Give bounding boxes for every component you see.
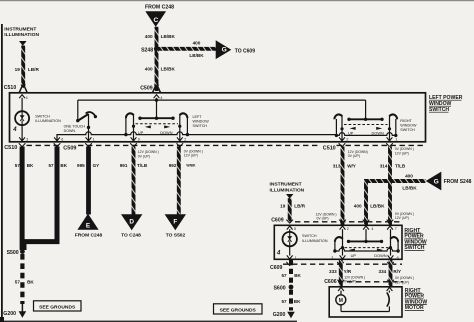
label UP / DOWN (right box switch) bbox=[351, 253, 387, 258]
pin 3 (chevron down) + digit bbox=[331, 255, 345, 259]
svg-text:400: 400 bbox=[193, 41, 201, 46]
left window switch: up-side moving contact and pin 9 drop bbox=[124, 113, 135, 141]
left window switch: linkage dashed bbox=[136, 123, 179, 125]
svg-text:UP: UP bbox=[351, 253, 357, 258]
switch illumination lamp (right box) bbox=[283, 232, 297, 246]
wire label 19 LB/R bbox=[15, 67, 40, 72]
connector dashed line C606 bbox=[338, 281, 403, 283]
label INSTRUMENT ILLUMINATION (top left) bbox=[4, 26, 39, 38]
motor pin chevrons bbox=[338, 287, 392, 291]
left window switch: contact bar bbox=[138, 117, 174, 120]
connector triangle G (to C609) bbox=[216, 40, 232, 59]
svg-text:E: E bbox=[86, 223, 91, 230]
svg-text:SWITCH: SWITCH bbox=[400, 128, 415, 132]
connector triangle C bbox=[145, 11, 166, 27]
voltage note (314 above box) bbox=[395, 212, 414, 220]
pin 4 C510 (chevron up) bbox=[19, 95, 27, 100]
feed arrow (top left) bbox=[19, 41, 27, 46]
label UP / DOWN (left window switch) bbox=[138, 130, 173, 135]
component title RIGHT POWER WINDOW SWITCH bbox=[404, 228, 427, 251]
ground G200 (right) bbox=[273, 312, 295, 318]
connector triangle F (to S502) bbox=[165, 214, 186, 238]
svg-text:UP: UP bbox=[138, 130, 144, 135]
svg-text:C510: C510 bbox=[4, 145, 17, 151]
wire 333 Y/R (pin3 to motor, hatched) bbox=[339, 260, 343, 287]
svg-text:12V (UP): 12V (UP) bbox=[184, 154, 198, 158]
svg-text:INSTRUMENT: INSTRUMENT bbox=[4, 26, 36, 32]
svg-text:4: 4 bbox=[371, 227, 373, 231]
svg-text:4: 4 bbox=[160, 96, 162, 100]
svg-text:LB/BK: LB/BK bbox=[189, 53, 204, 58]
wire labels row below box bbox=[15, 163, 406, 169]
connector triangle D (to C248) bbox=[121, 214, 142, 238]
svg-text:57: 57 bbox=[15, 163, 21, 168]
feed rail 400 inside box bbox=[78, 99, 366, 101]
svg-text:LB/BK: LB/BK bbox=[370, 203, 385, 208]
scan border left bbox=[1, 24, 3, 322]
svg-text:LB/BK: LB/BK bbox=[161, 67, 176, 72]
svg-text:C606: C606 bbox=[324, 279, 337, 285]
voltage note (992) bbox=[184, 149, 203, 157]
svg-text:1: 1 bbox=[93, 138, 95, 142]
svg-text:334: 334 bbox=[379, 269, 387, 274]
wire label 400 LB/BK (upper) bbox=[145, 34, 176, 39]
svg-text:6: 6 bbox=[61, 138, 63, 142]
connector dashed line C609 bottom bbox=[283, 263, 402, 265]
pin 9 C509 (chevron down) bbox=[131, 137, 140, 141]
one touch down switch: left contact riser bbox=[76, 100, 79, 122]
connector socket forks at C606 bbox=[338, 280, 394, 284]
svg-text:C609: C609 bbox=[271, 217, 284, 223]
wire 400 LB/BK (C to S248, hatched) bbox=[155, 27, 159, 91]
svg-text:6: 6 bbox=[397, 256, 399, 260]
wire lamp lead lower bbox=[21, 125, 23, 141]
svg-text:W/Y: W/Y bbox=[347, 163, 356, 168]
svg-text:FROM C248: FROM C248 bbox=[145, 5, 174, 11]
wire label 334 R/Y bbox=[379, 269, 402, 274]
svg-text:2: 2 bbox=[184, 138, 186, 142]
right box switch: rail with hops bbox=[335, 248, 398, 251]
svg-text:BK: BK bbox=[27, 163, 34, 168]
svg-text:WINDOW: WINDOW bbox=[193, 120, 210, 124]
svg-text:12V (UP): 12V (UP) bbox=[395, 280, 409, 284]
svg-text:G200: G200 bbox=[3, 311, 16, 317]
pin 2 C509 (chevron down) bbox=[177, 137, 186, 141]
svg-text:ILLUMINATION: ILLUMINATION bbox=[302, 239, 328, 243]
svg-text:DOWN: DOWN bbox=[374, 253, 387, 258]
svg-text:LB/BK: LB/BK bbox=[402, 186, 417, 191]
wire label 57 BK (lower right) bbox=[281, 299, 301, 304]
svg-text:W/BK: W/BK bbox=[186, 164, 196, 168]
motor brush arc bbox=[387, 292, 389, 306]
motor M1 circle bbox=[336, 291, 346, 312]
svg-text:UP: UP bbox=[348, 131, 354, 136]
svg-text:7: 7 bbox=[395, 227, 397, 231]
right power window motor box outline bbox=[329, 287, 402, 317]
svg-text:4: 4 bbox=[12, 127, 17, 133]
svg-text:3: 3 bbox=[331, 256, 333, 260]
wire 991 T/LB (pin9 down to D, hatched) bbox=[132, 147, 136, 216]
svg-text:57: 57 bbox=[281, 273, 287, 278]
svg-text:0V (UP): 0V (UP) bbox=[138, 154, 150, 158]
svg-text:DOWN.: DOWN. bbox=[64, 129, 76, 133]
motor internal wire right riser bbox=[388, 306, 390, 311]
svg-text:LEFT: LEFT bbox=[193, 115, 203, 119]
voltage note (313 above box) bbox=[316, 212, 337, 220]
svg-text:1: 1 bbox=[295, 256, 297, 260]
pin 6 C509 (chevron down) bbox=[54, 137, 63, 141]
svg-text:400: 400 bbox=[354, 203, 362, 208]
svg-text:C509: C509 bbox=[140, 86, 153, 92]
lamp leads (right box) bbox=[289, 229, 291, 255]
feed arrow (right illumination) bbox=[286, 194, 293, 199]
wire 992 W/BK (pin2 down to F, hatched) bbox=[177, 147, 181, 216]
svg-text:BK: BK bbox=[27, 280, 34, 285]
left window switch: down-side moving contact and pin 2 drop bbox=[178, 113, 189, 141]
svg-text:57: 57 bbox=[15, 280, 21, 285]
right box switch: down-side contact, pin7-pin6 wire bbox=[389, 229, 400, 255]
note box SEE GROUNDS (left) bbox=[34, 301, 82, 311]
wire 400 LB/BK (from G to right switch pin 4, hatched) bbox=[366, 181, 426, 225]
wire lamp lead upper bbox=[21, 98, 23, 111]
pin 7 (chevron up) + digit bbox=[387, 226, 397, 231]
wire 400 LB/BK (S248 to G, horizontal hatched) bbox=[157, 47, 216, 51]
pin 4 (chevron up) + digit bbox=[363, 226, 373, 231]
label RIGHT WINDOW SWITCH bbox=[400, 119, 417, 132]
connector dashed line below box (C510/C509) bbox=[27, 144, 426, 146]
right box switch: motion arrows bbox=[349, 249, 355, 252]
label SWITCH ILLUMINATION (left lamp) bbox=[35, 115, 61, 124]
svg-text:BK: BK bbox=[60, 163, 67, 168]
connector socket forks at C609 bottom bbox=[286, 262, 393, 266]
wire label 19 LB/R (right) bbox=[280, 204, 306, 209]
svg-text:BK: BK bbox=[294, 299, 301, 304]
right window switch: motion arrows bbox=[350, 127, 356, 130]
svg-text:400: 400 bbox=[405, 173, 413, 178]
svg-text:TO S502: TO S502 bbox=[166, 232, 186, 238]
svg-text:ILLUMINATION: ILLUMINATION bbox=[4, 32, 39, 38]
wire label 57 BK (upper right) bbox=[281, 273, 301, 278]
svg-text:57: 57 bbox=[48, 163, 54, 168]
connector C509 (top) bbox=[140, 85, 160, 93]
svg-text:SEE GROUNDS: SEE GROUNDS bbox=[220, 307, 257, 313]
right window switch: up-side moving contact and pin 2 drop bbox=[334, 114, 343, 141]
wire label 400 LB/BK (lower) bbox=[145, 67, 176, 72]
svg-text:TO C609: TO C609 bbox=[235, 49, 255, 55]
svg-text:SWITCH: SWITCH bbox=[302, 234, 317, 238]
svg-text:400: 400 bbox=[145, 34, 153, 39]
wire 313 W/Y (down to right switch, hatched) bbox=[341, 147, 345, 226]
svg-text:995: 995 bbox=[77, 163, 85, 168]
splice S248 bbox=[141, 46, 159, 53]
voltage note (314) bbox=[395, 147, 414, 155]
svg-text:G: G bbox=[222, 47, 227, 54]
svg-text:333: 333 bbox=[329, 269, 337, 274]
label SWITCH ILLUMINATION (right lamp) bbox=[302, 234, 328, 243]
svg-text:C510: C510 bbox=[323, 146, 336, 152]
voltage note (991) bbox=[138, 150, 159, 158]
svg-text:313: 313 bbox=[333, 163, 341, 168]
svg-text:0V (UP): 0V (UP) bbox=[348, 154, 360, 158]
right window switch: contact bar bbox=[347, 118, 383, 121]
svg-text:2: 2 bbox=[347, 227, 349, 231]
svg-text:991: 991 bbox=[120, 163, 128, 168]
wire 995 GY (pin1 down to E, solid) bbox=[86, 147, 91, 215]
svg-text:19: 19 bbox=[280, 204, 286, 209]
right window switch: down-side moving contact and pin 1 drop bbox=[388, 114, 398, 141]
svg-text:SEE GROUNDS: SEE GROUNDS bbox=[39, 304, 76, 310]
svg-text:992: 992 bbox=[169, 163, 177, 168]
scan border top bbox=[0, 0, 474, 1]
svg-text:LB/BK: LB/BK bbox=[161, 34, 176, 39]
svg-text:T/LB: T/LB bbox=[395, 163, 406, 168]
svg-text:FROM C248: FROM C248 bbox=[75, 232, 103, 238]
ground G200 (left) bbox=[3, 304, 26, 318]
svg-text:C509: C509 bbox=[63, 145, 76, 151]
svg-text:C609: C609 bbox=[270, 265, 283, 271]
svg-text:Y/R: Y/R bbox=[344, 269, 352, 274]
label INSTRUMENT ILLUMINATION (right) bbox=[270, 181, 305, 193]
svg-text:INSTRUMENT: INSTRUMENT bbox=[270, 181, 302, 187]
right window switch: linkage dashed bbox=[344, 124, 388, 126]
svg-text:S500: S500 bbox=[7, 250, 19, 256]
right power window switch box U2 outline bbox=[274, 225, 402, 259]
wire 19 LB/R (top left, hatched) bbox=[21, 46, 25, 86]
connector socket forks below box bbox=[19, 143, 393, 147]
connector triangle G (from S248) bbox=[426, 172, 442, 191]
pin 1 C509 (chevron down) bbox=[86, 137, 95, 141]
pin 2 (chevron up) + digit bbox=[340, 226, 349, 231]
svg-text:SWITCH: SWITCH bbox=[35, 115, 50, 119]
svg-text:19: 19 bbox=[15, 67, 21, 72]
right window switch: feed drop bbox=[364, 100, 367, 121]
svg-text:2: 2 bbox=[346, 138, 348, 142]
svg-text:BK: BK bbox=[294, 273, 301, 278]
wire 57 BK (pin1 to S600, dashed) bbox=[289, 260, 293, 285]
component title LEFT POWER WINDOW SWITCH bbox=[429, 95, 463, 113]
wire 57 BK (S600 to G200, dashed) bbox=[289, 290, 293, 311]
svg-text:S600: S600 bbox=[273, 286, 285, 292]
pin 1 (chevron down) bbox=[287, 255, 297, 259]
pin 1 C510 (chevron down) bbox=[387, 137, 398, 141]
pin 4 C509 (chevron up) + feed drop bbox=[154, 95, 163, 119]
pin 2 C510 (chevron down) bbox=[339, 137, 348, 141]
voltage note (313) bbox=[348, 150, 368, 158]
scan border bottom bbox=[0, 321, 297, 322]
svg-text:R/Y: R/Y bbox=[393, 269, 401, 274]
one touch down switch: stem to pin 1 bbox=[87, 114, 90, 141]
wire 57 BK (pin6 down then left to S500, solid) bbox=[24, 147, 57, 251]
svg-text:12V (UP): 12V (UP) bbox=[395, 216, 409, 220]
svg-text:SWITCH: SWITCH bbox=[193, 124, 208, 128]
label LEFT WINDOW SWITCH bbox=[193, 115, 210, 128]
left power window switch box U1 outline bbox=[10, 93, 426, 142]
ground rail inside box (with hops) bbox=[57, 132, 396, 142]
label UP / DOWN (right window switch) bbox=[348, 131, 384, 136]
svg-text:4: 4 bbox=[276, 251, 281, 257]
svg-text:TO C248: TO C248 bbox=[121, 232, 141, 238]
right box switch: contact bar bbox=[347, 240, 383, 243]
svg-text:C: C bbox=[154, 17, 159, 24]
svg-text:DOWN: DOWN bbox=[160, 130, 173, 135]
switch illumination lamp (left) bbox=[15, 111, 29, 125]
svg-text:T/LB: T/LB bbox=[137, 163, 148, 168]
svg-text:3: 3 bbox=[26, 138, 28, 142]
svg-text:S248: S248 bbox=[141, 48, 153, 54]
motor pin 2 lead bbox=[388, 291, 390, 293]
wire 19 LB/R (right, hatched) bbox=[288, 198, 292, 221]
wire 57 BK (pin3 down to S500, solid) bbox=[20, 147, 25, 251]
wire label 57 BK (lower left) bbox=[15, 280, 35, 285]
connector socket forks at C609 top bbox=[286, 220, 393, 224]
svg-text:FROM S248: FROM S248 bbox=[444, 179, 472, 185]
connector triangle E (from C248) bbox=[75, 214, 103, 239]
svg-text:ILLUMINATION: ILLUMINATION bbox=[35, 119, 61, 123]
svg-text:D: D bbox=[129, 218, 134, 225]
svg-text:C510: C510 bbox=[4, 85, 17, 91]
pin 6 (chevron down) + digit bbox=[388, 255, 399, 259]
splice S500 bbox=[7, 249, 25, 256]
splice S600 bbox=[273, 285, 293, 292]
svg-text:M: M bbox=[339, 298, 343, 304]
svg-text:G200: G200 bbox=[273, 312, 286, 318]
svg-text:314: 314 bbox=[380, 163, 388, 168]
svg-text:400: 400 bbox=[145, 67, 153, 72]
svg-text:4: 4 bbox=[26, 96, 28, 100]
voltage note (334) bbox=[395, 276, 414, 284]
right box switch: up-side contact, pin2-pin3 wire bbox=[333, 229, 344, 255]
wire label 333 Y/R bbox=[329, 269, 352, 274]
svg-text:GY: GY bbox=[93, 163, 100, 168]
note box SEE GROUNDS (center) bbox=[214, 304, 263, 314]
left window switch: motion arrows bbox=[145, 125, 151, 128]
svg-text:RIGHT: RIGHT bbox=[400, 119, 412, 123]
svg-text:F: F bbox=[173, 218, 177, 225]
svg-text:WINDOW: WINDOW bbox=[400, 123, 417, 127]
pin 5 (chevron up) bbox=[287, 226, 296, 231]
svg-text:LB/R: LB/R bbox=[294, 204, 305, 209]
connector C510 (top) bbox=[4, 85, 27, 93]
svg-text:1: 1 bbox=[395, 138, 397, 142]
wire label 400 LB/BK (vertical) bbox=[354, 203, 385, 208]
svg-text:DOWN: DOWN bbox=[372, 131, 385, 136]
wire 334 R/Y (pin6 to motor, hatched) bbox=[389, 260, 393, 287]
svg-text:12V (UP): 12V (UP) bbox=[395, 151, 409, 155]
svg-text:5: 5 bbox=[294, 227, 296, 231]
svg-text:0V (UP): 0V (UP) bbox=[317, 217, 329, 221]
connector dashed line C609 (top of right switch box) bbox=[295, 221, 402, 223]
one touch down switch: arm and hook bbox=[78, 112, 97, 120]
component title RIGHT POWER WINDOW MOTOR bbox=[405, 288, 428, 311]
svg-text:9: 9 bbox=[138, 138, 140, 142]
wire 314 T/LB (down to right switch, hatched) bbox=[388, 147, 392, 226]
svg-text:57: 57 bbox=[281, 299, 287, 304]
voltage note (333) bbox=[344, 275, 365, 283]
wire 57 BK (S500 to G200, dashed) bbox=[20, 254, 24, 304]
svg-text:ILLUMINATION: ILLUMINATION bbox=[270, 188, 305, 194]
svg-text:LB/R: LB/R bbox=[28, 67, 40, 72]
motor internal wire bottom bbox=[341, 311, 389, 313]
pin 3 C510 (chevron down) bbox=[19, 137, 28, 141]
right box switch: feed drop from pin 4 bbox=[364, 229, 367, 243]
label ONE TOUCH DOWN bbox=[64, 125, 86, 133]
right box switch: linkage dashed bbox=[345, 247, 389, 249]
svg-text:G: G bbox=[434, 178, 439, 185]
